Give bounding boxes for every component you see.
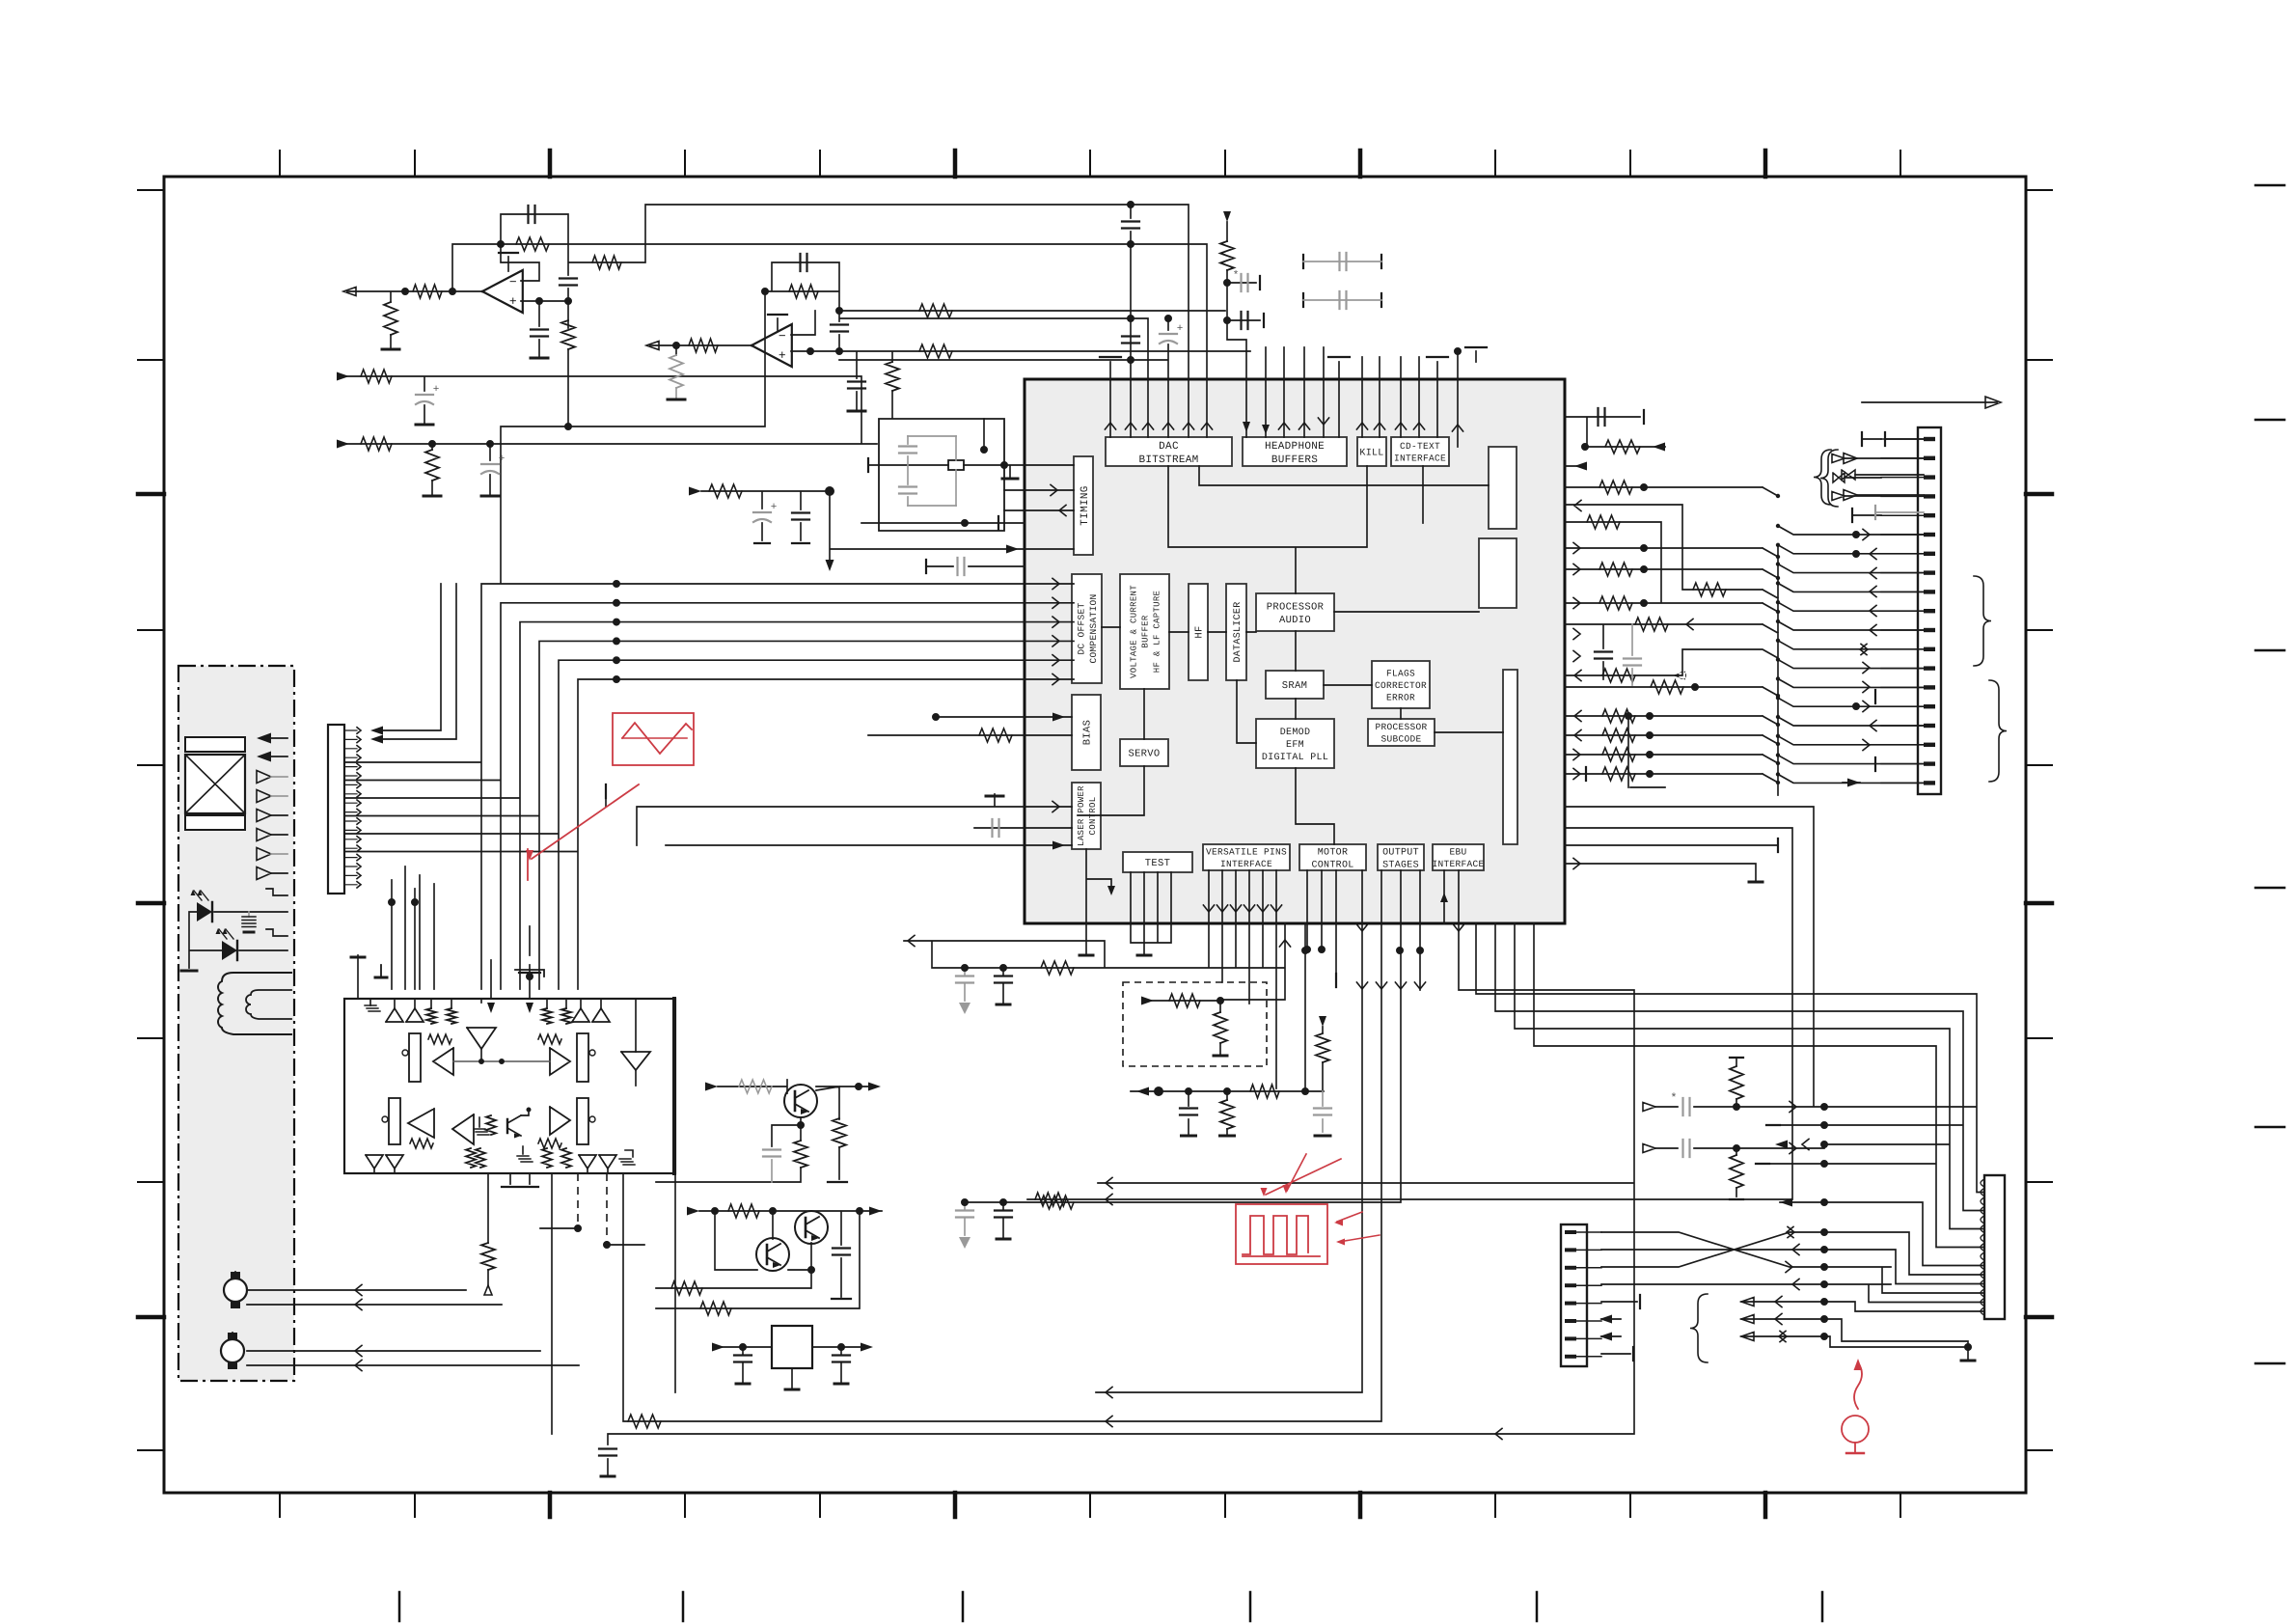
svg-text:CORRECTOR: CORRECTOR bbox=[1375, 680, 1427, 691]
svg-text:INTERFACE: INTERFACE bbox=[1432, 859, 1484, 869]
svg-text:DC OFFSET: DC OFFSET bbox=[1077, 602, 1087, 654]
svg-text:TIMING: TIMING bbox=[1080, 485, 1091, 525]
svg-text:DATASLICER: DATASLICER bbox=[1233, 601, 1244, 662]
svg-text:DAC: DAC bbox=[1159, 441, 1179, 453]
svg-text:INTERFACE: INTERFACE bbox=[1220, 859, 1272, 869]
svg-text:BUFFERS: BUFFERS bbox=[1271, 454, 1318, 466]
svg-text:−: − bbox=[779, 329, 786, 344]
svg-text:COMPENSATION: COMPENSATION bbox=[1088, 593, 1099, 663]
svg-text:MOTOR: MOTOR bbox=[1318, 848, 1349, 859]
svg-text:SRAM: SRAM bbox=[1282, 680, 1307, 692]
svg-text:BIAS: BIAS bbox=[1082, 720, 1094, 745]
svg-text:+: + bbox=[433, 384, 440, 396]
svg-text:HF & LF CAPTURE: HF & LF CAPTURE bbox=[1153, 591, 1162, 674]
svg-text:VOLTAGE & CURRENT: VOLTAGE & CURRENT bbox=[1130, 585, 1139, 678]
svg-text:HEADPHONE: HEADPHONE bbox=[1265, 441, 1325, 453]
svg-text:+: + bbox=[509, 294, 517, 309]
svg-text:+: + bbox=[779, 348, 786, 363]
svg-text:VERSATILE PINS: VERSATILE PINS bbox=[1206, 847, 1287, 858]
svg-text:*: * bbox=[1233, 270, 1240, 282]
svg-text:FLAGS: FLAGS bbox=[1386, 668, 1415, 678]
svg-text:PROCESSOR: PROCESSOR bbox=[1267, 601, 1325, 613]
svg-text:CONTROL: CONTROL bbox=[1311, 861, 1353, 871]
svg-text:SUBCODE: SUBCODE bbox=[1380, 734, 1421, 745]
svg-text:DIGITAL PLL: DIGITAL PLL bbox=[1262, 753, 1328, 763]
svg-text:PROCESSOR: PROCESSOR bbox=[1375, 722, 1427, 732]
svg-text:LASER POWER: LASER POWER bbox=[1077, 785, 1086, 846]
svg-text:−: − bbox=[509, 275, 517, 289]
svg-text:CD-TEXT: CD-TEXT bbox=[1400, 441, 1440, 452]
svg-text:SERVO: SERVO bbox=[1128, 749, 1160, 760]
svg-text:*: * bbox=[1670, 1091, 1677, 1105]
svg-text:+: + bbox=[1177, 323, 1184, 335]
svg-text:HF: HF bbox=[1194, 625, 1206, 638]
svg-text:ERROR: ERROR bbox=[1386, 692, 1415, 702]
svg-text:BITSTREAM: BITSTREAM bbox=[1138, 454, 1198, 466]
svg-text:DEMOD: DEMOD bbox=[1280, 728, 1311, 738]
svg-text:CONTROL: CONTROL bbox=[1088, 797, 1098, 836]
svg-text:INTERFACE: INTERFACE bbox=[1394, 454, 1446, 464]
svg-text:EBU: EBU bbox=[1449, 847, 1466, 858]
svg-text:KILL: KILL bbox=[1359, 449, 1383, 459]
svg-text:+: + bbox=[771, 502, 778, 513]
svg-text:TEST: TEST bbox=[1145, 858, 1170, 869]
svg-text:AUDIO: AUDIO bbox=[1279, 615, 1311, 626]
svg-text:BUFFER: BUFFER bbox=[1141, 615, 1151, 648]
svg-text:+: + bbox=[499, 454, 506, 465]
svg-text:OUTPUT: OUTPUT bbox=[1382, 848, 1419, 859]
svg-text:STAGES: STAGES bbox=[1382, 861, 1419, 871]
svg-text:EFM: EFM bbox=[1286, 740, 1304, 751]
